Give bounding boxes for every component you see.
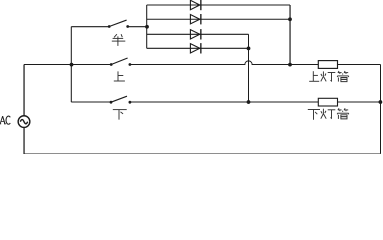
diode D3: [190, 29, 200, 39]
switch S2 (上): [110, 58, 132, 66]
label 半: [112, 34, 126, 46]
wire: diode-bank left vertical (x=146.7, y=5..48.3): [146, 5, 148, 48]
switch S3 (下): [110, 96, 132, 103]
node: junction branch 4 / vertical B: [247, 47, 251, 51]
node: junction half-line / diode bank: [145, 25, 149, 29]
label AC: [0, 116, 10, 124]
label 上灯管: [309, 71, 319, 81]
wire: vertical B joining branches 3,4 to lower-lamp line (x=248.5): [248, 34, 250, 102]
diode D4: [190, 43, 200, 53]
lamp upper (上灯管): [318, 61, 337, 69]
wire: bottom return line (y=153.8): [24, 153, 381, 155]
node: junction vertical A / upper-lamp line: [288, 63, 292, 67]
switch S1 (半): [108, 20, 129, 28]
wire: switch-bank left vertical (x=71.3, y=26.6..102): [70, 27, 72, 103]
wire: upper-lamp line right part with hop over x=248.5 vertical: [130, 61, 381, 65]
node: junction vertical B / lower-lamp line: [247, 100, 251, 104]
diode D1: [190, 0, 200, 10]
wire: diode branch 1 (y=5): [147, 4, 290, 6]
label 下: [113, 110, 127, 120]
node: junction branch 2 / vertical A: [288, 17, 292, 21]
wire: diode branch 4 (y=48.3): [147, 47, 249, 49]
lamp lower (下灯管): [318, 98, 337, 106]
wire: upper-lamp line left part (y=64.5, x=24..111.2): [24, 64, 111, 66]
label 下灯管: [308, 110, 320, 120]
wire: lower-lamp line (y=102, x=71.3..380.5): [71, 101, 380, 103]
wire: diode branch 2 (y=19.2): [147, 18, 290, 20]
node: junction lower-lamp line / right vertical: [379, 100, 383, 104]
AC source G1: [18, 116, 30, 128]
label 上: [114, 71, 125, 81]
wire: vertical A joining branches 1,2 to upper-lamp line (x=290): [289, 5, 291, 65]
node: junction switch-bank / upper-lamp line: [70, 63, 74, 67]
wire: half-switch line (y=26.6, x=71.3..146.7): [71, 26, 146, 28]
wire: AC left vertical upper segment (x=24, y=64.5..116): [23, 65, 25, 155]
wire: right vertical (x=380.5, y=64.5..154): [380, 65, 382, 154]
diode D2: [190, 14, 200, 24]
wire: diode branch 3 (y=34.3): [147, 33, 249, 35]
